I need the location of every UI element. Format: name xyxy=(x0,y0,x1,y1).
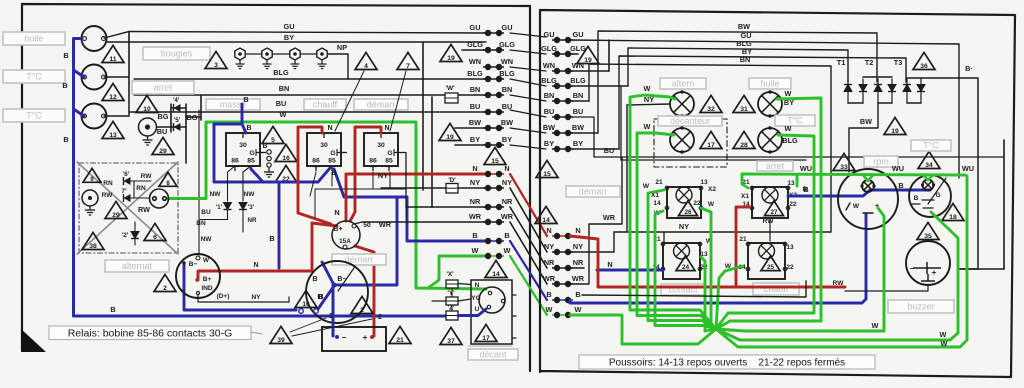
triangle 14 right seam xyxy=(535,206,557,224)
rectifier bottom link c xyxy=(907,102,921,104)
svg-text:19: 19 xyxy=(447,55,455,62)
svg-text:W: W xyxy=(941,339,948,348)
svg-text:RN: RN xyxy=(103,180,113,187)
wire blue relay bus xyxy=(214,124,318,182)
svg-text:BLG: BLG xyxy=(541,76,557,85)
svg-text:BY: BY xyxy=(544,139,554,148)
svg-text:W: W xyxy=(872,321,879,330)
svg-text:B+: B+ xyxy=(203,276,212,283)
svg-text:85: 85 xyxy=(328,158,336,165)
svg-text:'2': '2' xyxy=(122,232,129,239)
fuse 15A xyxy=(332,221,360,249)
svg-text:RN: RN xyxy=(136,185,146,192)
svg-text:BU: BU xyxy=(502,102,513,111)
wire BY stub right2 xyxy=(570,148,619,150)
wire glow plug link3 xyxy=(301,53,316,55)
pointer 39 to 1 xyxy=(290,318,326,332)
wire NP xyxy=(328,54,348,79)
label box TC right upper xyxy=(775,115,815,126)
starter contact lever xyxy=(338,268,354,291)
wire GLG stub xyxy=(462,49,486,51)
svg-text:T3: T3 xyxy=(894,58,903,67)
svg-text:'D': 'D' xyxy=(448,177,456,184)
wire BW stub right2 xyxy=(570,132,598,134)
dynamo circle xyxy=(150,189,169,208)
svg-text:BN: BN xyxy=(279,84,290,93)
wire blue starter minus xyxy=(184,263,296,310)
svg-text:(D+): (D+) xyxy=(217,293,230,300)
label box demarr right xyxy=(566,186,620,197)
pointer triangle7 to relay3 xyxy=(390,71,406,131)
connector pair W left page xyxy=(483,253,504,258)
label box buzzer xyxy=(888,300,954,313)
triangle 15 left page xyxy=(484,147,506,165)
label box altern xyxy=(660,78,706,89)
wire BU dashed xyxy=(570,117,1004,157)
svg-text:NY: NY xyxy=(544,242,554,251)
svg-text:RW: RW xyxy=(138,205,150,214)
connector pair NY left page xyxy=(483,185,504,190)
svg-text:50: 50 xyxy=(363,222,371,229)
svg-text:WN: WN xyxy=(469,57,481,66)
wire BU line xyxy=(129,111,486,113)
rectifier diode 3 lead xyxy=(877,79,879,103)
svg-text:B·: B· xyxy=(965,64,973,73)
svg-text:18: 18 xyxy=(949,214,957,221)
inline fuse 'W' xyxy=(445,93,458,103)
svg-text:B: B xyxy=(246,125,251,132)
wire WU tc lamp xyxy=(923,175,933,180)
svg-text:85: 85 xyxy=(385,158,393,165)
label box demarr xyxy=(354,99,408,110)
svg-text:NP: NP xyxy=(337,43,347,52)
svg-text:BW: BW xyxy=(572,123,584,132)
lamp huile xyxy=(758,90,782,117)
svg-text:+: + xyxy=(932,268,937,277)
wire BW bus xyxy=(598,31,877,133)
svg-text:'4': '4' xyxy=(173,97,180,104)
svg-text:WR: WR xyxy=(572,274,585,283)
svg-text:N: N xyxy=(504,164,509,173)
svg-text:BU: BU xyxy=(604,146,615,155)
svg-text:11: 11 xyxy=(109,56,116,63)
alternator circle xyxy=(176,254,220,298)
blue junction dot xyxy=(331,282,336,287)
label box TC right lower xyxy=(911,140,951,151)
seam wire lower group 2 xyxy=(510,207,547,268)
connector pair BN left page xyxy=(483,92,504,97)
seam wire top group 3 xyxy=(510,79,546,86)
svg-text:X1: X1 xyxy=(741,193,749,200)
svg-text:GU: GU xyxy=(573,30,584,39)
svg-text:B: B xyxy=(269,234,274,243)
svg-text:BU: BU xyxy=(470,102,481,111)
lamp decanteur xyxy=(670,126,694,153)
svg-text:86: 86 xyxy=(231,158,239,165)
svg-text:38: 38 xyxy=(89,243,97,250)
svg-text:alternat: alternat xyxy=(122,261,153,271)
wire buzzer ground link xyxy=(845,286,928,291)
svg-text:1: 1 xyxy=(360,307,364,314)
svg-text:W: W xyxy=(785,124,792,133)
wire NY bus right xyxy=(570,232,831,252)
svg-text:G: G xyxy=(249,150,254,157)
svg-text:17: 17 xyxy=(482,335,490,342)
relay2 86 wire xyxy=(310,172,316,196)
triangle 19 left page xyxy=(440,44,462,62)
svg-text:W: W xyxy=(940,330,947,339)
wire red relay2 feed xyxy=(298,127,331,224)
svg-text:N: N xyxy=(253,262,258,269)
lamp altern xyxy=(670,90,694,117)
rectifier diode 3 xyxy=(874,85,882,92)
svg-text:10: 10 xyxy=(143,106,151,113)
svg-text:13: 13 xyxy=(109,132,117,139)
label box T C upper xyxy=(3,70,65,83)
masse box vertical xyxy=(200,95,202,120)
inner frame bottom xyxy=(958,268,1004,270)
svg-text:WR: WR xyxy=(379,220,392,229)
thermo contact chain xyxy=(267,150,271,167)
alternator B- terminal xyxy=(182,261,185,264)
svg-text:B: B xyxy=(62,81,67,90)
wire BW to gauge xyxy=(849,103,878,172)
connector pair WN left page xyxy=(483,64,504,69)
pointer tc gauge xyxy=(928,178,946,204)
svg-text:29: 29 xyxy=(159,148,167,155)
svg-text:4: 4 xyxy=(364,63,368,70)
svg-text:altern: altern xyxy=(672,79,695,89)
wire blue junction up xyxy=(322,262,334,285)
battery xyxy=(322,327,386,351)
label box arret right xyxy=(757,161,793,171)
svg-text:BLG: BLG xyxy=(499,69,515,78)
pointer from note xyxy=(251,332,262,334)
svg-text:86: 86 xyxy=(369,158,377,165)
label box contact xyxy=(661,284,705,295)
fuse X-Y link xyxy=(451,288,453,297)
svg-text:BN: BN xyxy=(196,220,206,227)
svg-text:BLG: BLG xyxy=(782,136,798,145)
crossed X line 1 xyxy=(77,162,178,254)
svg-text:34: 34 xyxy=(925,162,933,169)
label box T C lower xyxy=(3,109,65,122)
label box alternat xyxy=(105,260,169,272)
svg-text:NW: NW xyxy=(210,191,222,198)
wire green branch to altern lamp xyxy=(645,95,675,99)
wire N red bus xyxy=(570,236,845,287)
alternator IND terminal xyxy=(196,291,199,294)
connector pair GLG left page xyxy=(483,47,504,52)
push button 26 xyxy=(665,186,703,218)
triangle 6 xyxy=(144,223,166,241)
ground below sender small xyxy=(85,206,95,215)
wire W green altern lamp trunk xyxy=(630,95,716,329)
diode '4' xyxy=(174,104,181,112)
connector pair N left page xyxy=(483,171,504,176)
svg-text:GU: GU xyxy=(502,23,513,32)
svg-text:N: N xyxy=(475,282,480,289)
text box poussoirs note xyxy=(579,355,875,369)
relay1 85 wire2 xyxy=(243,166,251,201)
lamp TC xyxy=(758,126,782,153)
BG ladder top link xyxy=(171,107,186,109)
diode 1 out xyxy=(200,210,228,220)
wire red relay3 feed xyxy=(350,127,381,221)
wire W green pb26 trunk xyxy=(648,190,716,329)
inline fuse 'X' xyxy=(446,280,458,288)
svg-text:W: W xyxy=(203,257,210,264)
svg-text:T°C: T°C xyxy=(26,72,42,82)
wire blue relay1 30 xyxy=(242,124,246,133)
svg-text:7: 7 xyxy=(406,63,410,70)
svg-text:chauff: chauff xyxy=(313,100,338,110)
stub Y left xyxy=(432,300,446,302)
seam wire top group 0 xyxy=(510,33,546,37)
svg-text:BU: BU xyxy=(544,107,555,116)
wire RW drop xyxy=(769,218,771,241)
gauge huile G1 xyxy=(82,26,107,51)
wire W green pb25 trunk xyxy=(716,266,743,329)
svg-text:39: 39 xyxy=(277,337,285,344)
connector pair N right page xyxy=(552,233,573,238)
triangle 14 left page xyxy=(485,260,507,278)
diode '3' xyxy=(239,203,247,210)
svg-text:RW: RW xyxy=(763,218,775,225)
crossed box border xyxy=(79,163,178,253)
svg-text:démarr: démarr xyxy=(367,100,396,110)
connector pair WR left page xyxy=(483,219,504,224)
wire B navy bus xyxy=(570,214,866,303)
wire blue relay2 85 down xyxy=(334,169,407,197)
svg-text:BLG: BLG xyxy=(467,69,483,78)
svg-text:'3': '3' xyxy=(248,204,255,211)
triangle 29 upper xyxy=(152,137,174,155)
svg-text:NY: NY xyxy=(378,171,388,180)
relay K1 xyxy=(226,133,266,171)
left page border xyxy=(22,4,530,371)
wire BW stub xyxy=(455,127,486,129)
svg-text:19: 19 xyxy=(446,134,454,141)
triangle 13 xyxy=(102,121,124,139)
svg-text:GLG: GLG xyxy=(499,40,515,49)
rectifier diode 1 lead xyxy=(847,79,849,103)
triangle 7 xyxy=(397,52,419,70)
page corner fold artifact xyxy=(21,329,46,352)
svg-text:W: W xyxy=(644,84,651,93)
connector pair BN right page xyxy=(552,98,573,103)
wire red fuse to battery xyxy=(355,246,374,336)
label box chauff right xyxy=(753,283,799,295)
wire blue relay1 85 branch xyxy=(251,169,263,182)
svg-text:N: N xyxy=(607,260,612,269)
lamp inside rpm gauge xyxy=(860,180,875,192)
svg-text:NR: NR xyxy=(544,258,555,267)
wire blue solenoid diag xyxy=(318,286,334,309)
label box huile xyxy=(3,32,65,45)
tc gauge xyxy=(909,175,951,217)
svg-text:33: 33 xyxy=(840,164,848,171)
svg-text:'W': 'W' xyxy=(445,85,455,92)
triangle 21 xyxy=(389,326,411,344)
wire BY stub xyxy=(455,144,486,146)
svg-text:B: B xyxy=(332,170,337,177)
svg-text:B: B xyxy=(504,231,509,240)
svg-text:T°C: T°C xyxy=(26,111,42,121)
svg-text:B: B xyxy=(914,195,919,202)
svg-text:N: N xyxy=(384,125,389,132)
seam tick 1 xyxy=(513,294,516,296)
svg-text:30: 30 xyxy=(239,142,247,149)
svg-text:BW: BW xyxy=(738,22,750,31)
label box decant xyxy=(468,349,518,360)
svg-text:RW: RW xyxy=(833,280,845,287)
svg-text:BN: BN xyxy=(470,85,481,94)
svg-text:15: 15 xyxy=(491,158,499,165)
wire blue B drop mid xyxy=(278,184,281,268)
rectifier diode 6 lead xyxy=(920,79,922,103)
label box chauff xyxy=(304,99,346,110)
ignition switch rotor xyxy=(479,287,505,313)
wire blue battery minus xyxy=(332,287,335,336)
label box rpm xyxy=(864,156,898,167)
svg-text:5: 5 xyxy=(271,137,275,144)
svg-text:Relais: bobine 85-86 contacts: Relais: bobine 85-86 contacts 30-G xyxy=(68,328,233,340)
alternator W terminal xyxy=(196,256,200,260)
connector pair BU left page xyxy=(483,109,504,114)
rpm lever mark xyxy=(846,203,850,210)
svg-text:15A: 15A xyxy=(339,238,351,245)
triangle 15 right seam xyxy=(536,160,558,178)
triangle 11 xyxy=(102,45,124,63)
connector pair BLG right page xyxy=(552,83,573,88)
svg-text:X2: X2 xyxy=(708,186,716,193)
relay3 85 wire NY xyxy=(389,172,391,188)
wire W green pb24 trunk xyxy=(701,257,716,331)
push button 24 xyxy=(661,242,702,279)
svg-text:YG: YG xyxy=(471,295,480,302)
triangle 2 xyxy=(154,274,176,292)
wire NR xyxy=(406,206,486,208)
diode '7' xyxy=(124,194,131,202)
wire BY top xyxy=(106,41,486,43)
svg-text:26: 26 xyxy=(684,209,692,216)
seam wire lower group 1 xyxy=(510,188,547,252)
rectifier diode 2 xyxy=(859,85,867,92)
wire WN from gauge2 xyxy=(104,76,129,78)
svg-text:NY: NY xyxy=(502,178,512,187)
svg-text:RW: RW xyxy=(141,173,153,180)
glow plug 2 xyxy=(262,48,272,69)
svg-text:B: B xyxy=(546,290,551,299)
svg-text:15: 15 xyxy=(543,171,551,178)
lamp panel box xyxy=(621,86,806,160)
ground below chain xyxy=(264,168,274,177)
svg-text:GU: GU xyxy=(284,22,295,31)
svg-text:'1': '1' xyxy=(216,204,223,211)
wire B blue branch gauge3 xyxy=(74,109,85,116)
pointer 39 to 2 xyxy=(292,319,372,336)
svg-text:BW: BW xyxy=(543,123,555,132)
triangle 3 xyxy=(205,51,227,69)
rectifier diode 6 xyxy=(917,85,925,92)
svg-text:85: 85 xyxy=(247,158,255,165)
triangle 29 in crossed box xyxy=(105,201,127,219)
inner box left vertical xyxy=(128,32,130,96)
svg-text:G: G xyxy=(330,150,335,157)
svg-text:B: B xyxy=(803,185,808,194)
wire W green TC lamp return xyxy=(716,135,814,329)
inner frame right vertical xyxy=(1003,140,1005,269)
svg-text:B: B xyxy=(63,51,68,60)
wire B blue branch gauge2 xyxy=(74,70,85,77)
diode 6 out xyxy=(131,180,151,182)
gauge temperature G3 xyxy=(82,104,107,129)
wire NR stub lower xyxy=(570,267,584,269)
wire BN bus xyxy=(589,64,831,232)
triangle 37 xyxy=(440,327,462,345)
triangle 9 in crossed box xyxy=(83,168,101,182)
label box bougies xyxy=(143,47,210,60)
svg-text:NY: NY xyxy=(470,178,480,187)
text box relais note xyxy=(49,326,251,340)
triangle 38 xyxy=(82,232,104,250)
svg-text:T°C: T°C xyxy=(923,141,939,151)
svg-text:NR: NR xyxy=(470,197,481,206)
glow plug 3 xyxy=(290,48,300,69)
triangle 33 xyxy=(833,153,855,171)
relay2 pin wire xyxy=(331,172,333,186)
wire blue to B connector xyxy=(407,197,486,241)
svg-text:BN: BN xyxy=(502,85,513,94)
svg-text:'Y': 'Y' xyxy=(447,290,455,297)
rectifier link a xyxy=(863,76,892,78)
svg-text:BW: BW xyxy=(469,118,481,127)
svg-text:huile: huile xyxy=(760,79,779,89)
wire WU bus xyxy=(742,174,965,184)
svg-text:'Z': 'Z' xyxy=(448,305,455,312)
triangle 1 xyxy=(351,296,373,314)
wire B blue gauge bus xyxy=(74,39,447,317)
svg-text:NW: NW xyxy=(201,236,213,243)
svg-text:BN: BN xyxy=(573,91,584,100)
seam wire top group 4 xyxy=(510,95,546,101)
label box decanteur xyxy=(658,116,722,126)
triangle 4 xyxy=(355,52,377,70)
svg-text:W: W xyxy=(575,305,582,314)
svg-text:22: 22 xyxy=(789,201,797,208)
triangle 19 left page lower xyxy=(439,123,461,141)
svg-text:27: 27 xyxy=(770,209,778,216)
connector pair BY left page xyxy=(483,142,504,147)
svg-text:BLG: BLG xyxy=(570,76,586,85)
svg-text:GLG: GLG xyxy=(467,40,483,49)
svg-text:W: W xyxy=(546,305,553,314)
wire glow plug link2 xyxy=(273,53,289,55)
svg-text:B: B xyxy=(317,292,322,301)
tc minus mark xyxy=(912,203,920,205)
svg-text:B−: B− xyxy=(189,261,198,268)
crossed X line 2 xyxy=(77,162,178,254)
triangle 18 xyxy=(942,203,964,221)
svg-text:WN: WN xyxy=(543,61,555,70)
connector pair WN right page xyxy=(552,68,573,73)
connector pair BLG left page xyxy=(483,76,504,81)
alternator B+ terminal xyxy=(195,278,198,281)
lamp inside tc gauge xyxy=(921,180,935,191)
inline fuse 'D' xyxy=(446,184,458,194)
wire W green extra trunk xyxy=(655,211,716,329)
